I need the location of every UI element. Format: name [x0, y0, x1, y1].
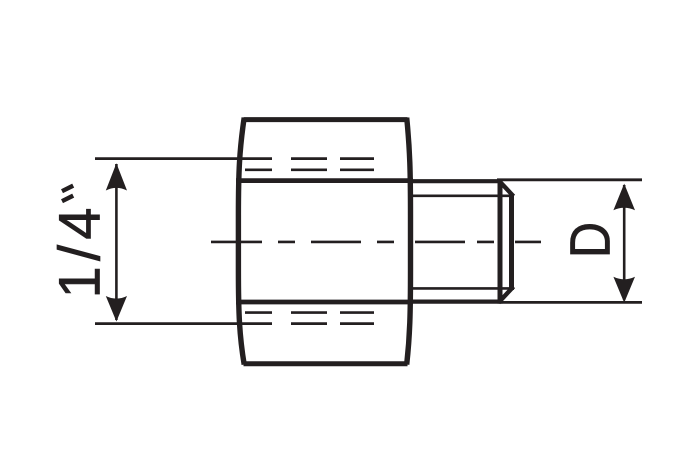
male thread major diameter top	[411, 179, 501, 183]
male thread minor diameter top	[412, 195, 512, 198]
inch double-prime mark 2	[62, 196, 73, 202]
hex body bottom edge	[244, 361, 408, 366]
male thread chamfer diagonal top	[499, 180, 514, 196]
extension line D bottom	[503, 301, 642, 304]
hex body left edge	[238, 118, 244, 365]
hex facet line upper	[236, 178, 413, 183]
dimension line 1/4 inch vertical	[115, 164, 118, 320]
hex facet line lower	[236, 300, 413, 305]
internal thread hidden line upper-outer (merges with extension line)	[95, 157, 374, 160]
arrowhead down (D bottom)	[613, 277, 635, 303]
male thread end face vertical	[509, 194, 514, 290]
svg-text:D: D	[559, 222, 623, 258]
arrowhead up (D top)	[613, 184, 635, 211]
male thread major diameter bottom	[411, 300, 503, 304]
svg-text:1/4: 1/4	[48, 202, 113, 298]
internal thread hidden line lower-inner	[245, 311, 374, 314]
dimension line D vertical	[623, 185, 626, 300]
arrowhead down (1/4 inch bottom)	[106, 296, 127, 322]
hex body right edge	[407, 118, 411, 365]
male thread chamfer start vertical	[498, 179, 503, 303]
arrowhead up (1/4 inch top)	[106, 163, 127, 190]
internal thread hidden line lower-outer (merges with extension line)	[95, 322, 374, 325]
male thread minor diameter bottom	[412, 287, 512, 290]
internal thread hidden line upper-inner	[245, 169, 374, 172]
inch double-prime mark 1	[62, 186, 73, 192]
male thread chamfer diagonal bottom	[499, 287, 514, 303]
extension line D top	[497, 178, 642, 181]
center line (dash-dot)	[211, 241, 541, 244]
hex body top edge	[244, 117, 408, 122]
